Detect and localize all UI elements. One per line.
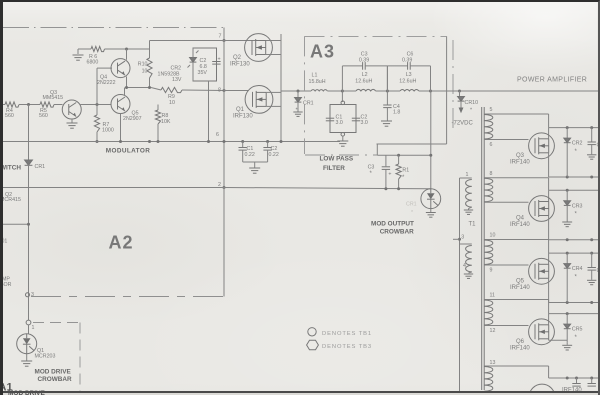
inductor L1 xyxy=(311,90,327,91)
wire sense line upper xyxy=(377,143,447,145)
capacitor C3 star xyxy=(385,155,387,166)
wire cap join to ground xyxy=(243,161,268,163)
ground T1 upper xyxy=(468,209,470,210)
wire scr ground xyxy=(430,209,432,212)
diode CR4 xyxy=(566,252,569,255)
capacitor C2 3.0 xyxy=(352,118,360,121)
wire source Q5 xyxy=(548,278,550,302)
capacitor bottom partial xyxy=(591,378,593,383)
transistor Q5 xyxy=(111,95,130,114)
capacitor C2 0.22 xyxy=(267,142,269,148)
wire node8 to Q1 gate xyxy=(224,90,248,92)
transformer winding Q5 stage xyxy=(484,239,548,241)
wire drain rail Q3 xyxy=(549,127,600,129)
diode CR1 lpf xyxy=(297,90,300,93)
wire source Q3 xyxy=(548,153,550,177)
wire drain rail Q5 xyxy=(549,252,600,254)
resistor R4 xyxy=(5,102,19,107)
wire node1 to SCR xyxy=(28,325,30,334)
wire emitter junction rail xyxy=(127,87,152,89)
capacitor Q5 stage xyxy=(590,252,593,255)
wire SCR to ground xyxy=(26,354,28,361)
wire Q3 collector rail xyxy=(81,104,112,106)
resistor R6 xyxy=(91,46,105,51)
transformer winding Q4 stage xyxy=(484,177,548,179)
wire xyxy=(18,39,20,41)
ground cap Q3 stage xyxy=(587,155,596,159)
wire R5 to Q3 base xyxy=(54,104,63,106)
wire Q4 emitter xyxy=(126,77,128,88)
wire Q3 emitter to ground xyxy=(71,119,73,123)
wire left edge drop to R10 xyxy=(149,41,151,59)
ground CR3 xyxy=(566,220,568,222)
transformer T1 primary winding upper xyxy=(459,178,461,391)
mosfet Q5 xyxy=(529,258,555,284)
transistor Q3 xyxy=(62,100,81,119)
diode CR1 xyxy=(25,160,33,165)
capacitor C4 xyxy=(386,91,388,105)
ground T1 lower xyxy=(464,274,473,278)
wire source Q4 xyxy=(548,216,550,240)
ground Q3 xyxy=(67,123,78,128)
thyristor mod output crowbar xyxy=(421,189,441,209)
wire node7 riser xyxy=(223,28,225,41)
resistor R8 xyxy=(157,105,159,111)
wire drain rail Q4 xyxy=(549,189,600,191)
wire box bottom to ground xyxy=(341,133,345,137)
capacitor C1 3.0 xyxy=(326,118,334,121)
mosfet Q6 xyxy=(529,319,555,345)
inductor L3 xyxy=(400,89,419,91)
diode CR2 xyxy=(566,126,569,129)
resistor R7 xyxy=(96,105,98,116)
mosfet Q2 xyxy=(245,34,273,62)
wire sense line lower xyxy=(377,154,431,156)
mosfet bottom partial xyxy=(529,384,555,395)
wire source Q6 xyxy=(548,339,550,341)
node 3 xyxy=(26,293,30,297)
wire drain riser Q5 xyxy=(548,240,550,254)
capacitor C6 bridge xyxy=(386,65,388,67)
A3 dashed box xyxy=(305,36,454,155)
wire drain riser Q3 xyxy=(548,114,550,128)
transformer winding Q6 stage xyxy=(484,299,548,301)
transistor Q4 xyxy=(111,59,130,78)
wire Q4 collector xyxy=(126,49,128,60)
wire main bus xyxy=(281,90,311,92)
capacitor C1 0.22 xyxy=(242,142,244,148)
diode CR3 xyxy=(566,189,569,192)
node 2 xyxy=(223,186,226,189)
capacitor C2 modulator xyxy=(212,62,220,65)
wire A2 top edge crowbar line xyxy=(3,187,224,189)
legend denotes TB3 xyxy=(307,340,319,350)
ground crowbar scr xyxy=(426,213,436,218)
ground C1 C2 xyxy=(249,168,260,173)
wire gate Q3 xyxy=(484,139,528,141)
capacitor Q3 stage xyxy=(590,126,593,129)
wire box risers xyxy=(208,81,210,142)
wire drain top rail xyxy=(150,40,282,42)
resistor R1 star xyxy=(398,155,400,164)
wire Q5 collector riser xyxy=(124,88,126,96)
wire left edge drop switch line xyxy=(28,105,30,161)
mosfet Q3 xyxy=(529,133,555,159)
wire input rail left xyxy=(3,104,5,106)
transformer T1 primary winding lower xyxy=(460,243,472,245)
ground C4 xyxy=(381,121,392,126)
wire gate Q4 xyxy=(484,201,528,203)
wire stub into A2 xyxy=(3,223,29,225)
crowbar A1 dashed box xyxy=(33,323,80,394)
thyristor Q1 MCR203 xyxy=(17,334,37,354)
transformer winding bottom partial xyxy=(484,365,548,367)
ground CR5 xyxy=(566,343,568,345)
wire gate Q6 xyxy=(484,325,528,327)
ground cap Q5 stage xyxy=(587,280,596,284)
wire Q5 bottom to output rail xyxy=(120,114,122,142)
mosfet Q1 xyxy=(245,86,273,114)
node 3 T1 xyxy=(458,238,461,241)
A2 box xyxy=(29,188,225,297)
wire top bus dash-dot xyxy=(3,27,223,29)
resistor R10 xyxy=(147,58,152,78)
transformer winding Q3 stage xyxy=(484,113,548,115)
capacitor C1 C2 3.0 box xyxy=(330,105,356,133)
wire R9 to node 8 xyxy=(182,89,224,92)
capacitor C3 bridge xyxy=(341,66,343,91)
wire bottom stage rail xyxy=(548,366,550,378)
wire modulator output rail xyxy=(3,141,340,143)
wire drain riser Q6 xyxy=(548,300,550,314)
wire lpf output to crowbar xyxy=(430,91,432,189)
wire gate Q5 xyxy=(484,264,528,266)
diode CR10 xyxy=(459,91,461,96)
wire R6 rail xyxy=(78,48,91,50)
zener CR2 box xyxy=(193,48,217,81)
mosfet Q4 xyxy=(529,196,555,222)
legend denotes TB1 xyxy=(308,328,316,336)
inductor L2 xyxy=(356,89,376,91)
wire main vertical node7-node2 xyxy=(223,41,225,188)
diode CR5 xyxy=(566,312,569,315)
wire Q4 base riser xyxy=(96,68,98,104)
wire xyxy=(419,90,600,92)
resistor R9 xyxy=(161,87,182,92)
resistor R5 xyxy=(40,102,54,107)
wire R6 to Q4 collector rail xyxy=(105,48,150,50)
ground CR1 xyxy=(293,112,302,116)
wire drain riser Q4 xyxy=(548,178,550,191)
wire xyxy=(327,90,356,92)
transformer core xyxy=(481,107,483,390)
wire drain rail Q6 xyxy=(549,313,600,315)
wire Q2 Q1 right vertical xyxy=(266,40,281,42)
ground lpf caps xyxy=(337,141,348,146)
wire xyxy=(376,90,400,92)
ground Q1 xyxy=(21,361,32,366)
zener diode CR2 xyxy=(190,58,197,63)
node 1 terminal TB1 xyxy=(26,320,31,325)
ground R6 xyxy=(77,49,79,54)
